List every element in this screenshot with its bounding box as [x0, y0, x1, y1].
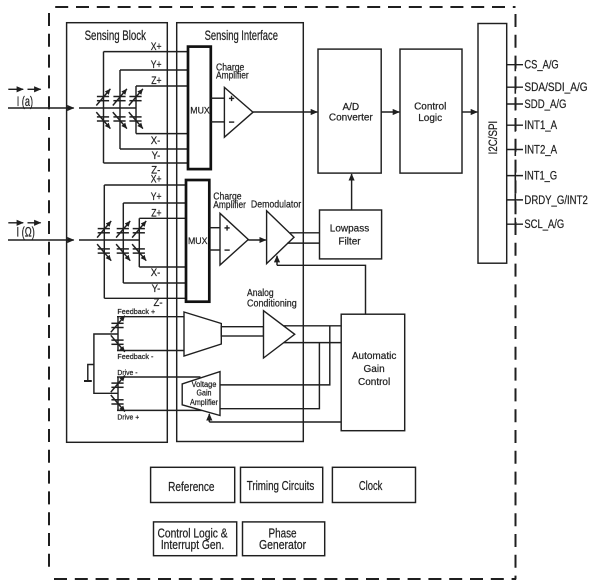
label Voltage Gain Amplifier: [190, 380, 218, 407]
wire: A/D to Control Logic: [381, 111, 399, 113]
svg-text:Conditioning: Conditioning: [247, 298, 297, 310]
svg-text:Feedback +: Feedback +: [117, 307, 155, 316]
mux MUX2 (gyro): [186, 180, 209, 302]
wire: MUX2 to amp - input: [209, 249, 220, 251]
chip boundary (dashed): [49, 7, 516, 579]
variable capacitor gyro top col2: [116, 221, 130, 238]
wire: Drive- rail: [117, 376, 201, 378]
svg-text:Y-: Y-: [152, 283, 161, 295]
wire: Feedback+ rail: [117, 316, 184, 318]
wire: demod output upper to lowpass: [290, 232, 320, 234]
anchor symbol: [84, 365, 94, 382]
svg-text:X-: X-: [151, 268, 161, 280]
Triming Circuits box: [241, 467, 323, 502]
variable capacitor accel bottom col2: [113, 112, 127, 129]
svg-text:−: −: [224, 246, 230, 257]
wire: AC lower output to AGC: [284, 342, 341, 344]
label A/D Converter: [329, 102, 374, 124]
svg-text:Feedback -: Feedback -: [117, 352, 154, 361]
svg-text:Reference: Reference: [168, 480, 214, 495]
wire: gyro Z electrode column: [138, 218, 140, 267]
label Control Logic: [414, 102, 446, 124]
label Charge Amplifier (accel): [216, 62, 249, 81]
wire: Feedback- rail: [117, 350, 184, 352]
wire: accelerometer common input line with arrow: [8, 107, 136, 109]
Lowpass Filter box: [320, 210, 382, 259]
wire: Control Logic to I2C/SPI: [462, 111, 477, 113]
variable capacitor drive bottom: [111, 395, 125, 412]
wire: demod output lower to lowpass: [287, 242, 319, 244]
wire: MUX1 to amp + input: [211, 97, 225, 99]
variable capacitor feedback top: [111, 316, 125, 333]
variable capacitor gyro top col1: [97, 221, 111, 238]
wire: drive electrode column: [117, 377, 119, 410]
svg-text:X-: X-: [151, 135, 161, 147]
wire: branch to VGA upper input: [220, 326, 330, 385]
svg-text:INT1_G: INT1_G: [524, 170, 557, 183]
Phase Generator box: [243, 522, 325, 556]
wire: rail Y+ (gyro): [123, 202, 186, 204]
wire: accel X electrode column: [103, 52, 105, 163]
variable capacitor accel bottom col3: [129, 112, 143, 129]
wire: AGC to VGA bottom (arrow up): [209, 414, 341, 422]
wire: gyro Y electrode column: [122, 203, 124, 283]
wire: rail X- (accel): [136, 133, 188, 135]
wire: MUX1 to amp - input: [211, 121, 225, 123]
wire: rail Z+ (accel): [136, 85, 188, 87]
svg-text:Sensing Block: Sensing Block: [85, 27, 147, 43]
Clock box: [332, 467, 415, 502]
demodulator triangle: [267, 211, 294, 264]
label Charge Amplifier (gyro): [213, 191, 246, 210]
wire: AGC feedback to demodulator (arrow up): [277, 256, 366, 314]
wire: rail Z+ (gyro): [139, 217, 186, 219]
svg-text:A/D: A/D: [342, 102, 359, 113]
pin INT2_A: [507, 143, 558, 157]
svg-text:INT2_A: INT2_A: [524, 144, 557, 157]
svg-text:Amplifier: Amplifier: [190, 398, 218, 407]
wire: gyroscope common input line with arrow: [8, 239, 139, 241]
svg-text:Drive -: Drive -: [117, 370, 138, 377]
svg-text:I (Ω): I (Ω): [17, 226, 35, 240]
svg-text:Z+: Z+: [151, 208, 161, 220]
wire: rail Y+ (accel): [120, 69, 188, 71]
Automatic Gain Control box: [341, 314, 405, 431]
svg-text:MUX: MUX: [188, 236, 207, 246]
svg-text:SDD_A/G: SDD_A/G: [524, 98, 566, 111]
svg-text:Filter: Filter: [338, 236, 361, 247]
wire: Drive+ rail: [117, 409, 202, 411]
wire: charge amp2 output to demodulator: [248, 239, 266, 241]
svg-text:Clock: Clock: [359, 480, 383, 494]
pin SDA/SDI_A/G: [507, 81, 588, 95]
wire: rail Z- (accel): [104, 162, 189, 164]
svg-text:Y-: Y-: [152, 150, 161, 162]
svg-text:Generator: Generator: [259, 539, 306, 552]
svg-text:Triming Circuits: Triming Circuits: [247, 480, 315, 493]
svg-text:Interrupt Gen.: Interrupt Gen.: [161, 539, 224, 552]
svg-text:X+: X+: [151, 41, 162, 53]
I2C/SPI box: [478, 24, 507, 264]
label Automatic Gain Control: [352, 351, 396, 388]
wire: branch to VGA lower input: [220, 343, 319, 409]
svg-text:Lowpass: Lowpass: [330, 223, 369, 234]
svg-text:Converter: Converter: [329, 113, 374, 124]
wire: rail X+ (accel): [104, 51, 189, 53]
wire: accel Y electrode column: [119, 70, 121, 149]
Sensing Interface box: [177, 23, 304, 442]
pin INT1_G: [507, 169, 557, 183]
pin CS_A/G: [507, 58, 559, 72]
wire: MUX2 to amp + input: [209, 227, 220, 229]
label Control Logic & Interrupt Gen.: [157, 528, 227, 553]
voltage gain amplifier (trapezoid, points left): [182, 372, 220, 416]
svg-text:Sensing Interface: Sensing Interface: [205, 27, 279, 43]
svg-text:Gain: Gain: [364, 364, 385, 375]
svg-text:Logic: Logic: [418, 113, 442, 124]
svg-text:Drive +: Drive +: [117, 414, 139, 421]
variable capacitor gyro bottom col2: [116, 244, 130, 261]
Sensing Block box: [67, 23, 168, 443]
svg-text:Amplifier: Amplifier: [213, 198, 246, 210]
svg-text:SDA/SDI_A/G: SDA/SDI_A/G: [524, 82, 587, 95]
op-amp U2 charge amplifier (gyro): [220, 213, 248, 265]
variable capacitor accel top col1: [96, 89, 110, 106]
Control Logic and Interrupt Gen box: [154, 522, 237, 556]
svg-text:DRDY_G/INT2: DRDY_G/INT2: [524, 194, 587, 207]
wire: rail Y- (gyro): [123, 282, 186, 284]
wire: rail X- (gyro): [139, 266, 186, 268]
svg-text:+: +: [229, 94, 235, 105]
wire: rail Z- (gyro): [104, 297, 186, 299]
mux MUX1 (accel): [188, 47, 211, 170]
A/D Converter box: [318, 49, 381, 173]
variable capacitor gyro top col3: [132, 221, 146, 238]
svg-text:CS_A/G: CS_A/G: [524, 59, 558, 72]
svg-text:−: −: [229, 118, 235, 129]
svg-text:Z+: Z+: [151, 75, 161, 87]
wire: feedback/drive common bracket: [94, 334, 118, 393]
pin SDD_A/G: [507, 98, 567, 112]
svg-text:Gain: Gain: [197, 388, 212, 397]
pin DRDY_G/INT2: [507, 193, 588, 207]
wire: rail Y- (accel): [120, 148, 188, 150]
variable capacitor feedback bottom: [111, 335, 125, 352]
wire: accel Z electrode column: [135, 86, 137, 134]
variable capacitor accel top col3: [129, 89, 143, 106]
analog conditioning amplifier triangle: [264, 311, 295, 358]
feedback buffer amplifier (trapezoid): [184, 312, 221, 356]
wire: wide bus feedback buffer to analog conditioning: [221, 327, 263, 336]
wire: charge amp1 output to A/D: [253, 111, 317, 113]
svg-text:+: +: [224, 224, 230, 235]
variable capacitor gyro bottom col3: [132, 244, 146, 261]
svg-text:SCL_A/G: SCL_A/G: [524, 218, 564, 231]
svg-text:X+: X+: [151, 173, 162, 185]
variable capacitor drive top: [111, 376, 125, 393]
svg-text:Automatic: Automatic: [352, 351, 396, 362]
svg-text:Y+: Y+: [151, 191, 162, 203]
input I(Omega) double arrows: [8, 222, 40, 224]
pin SCL_A/G: [507, 218, 564, 232]
input I(a) double arrows: [8, 88, 40, 90]
label Phase Generator: [259, 528, 306, 553]
Reference box: [151, 467, 235, 502]
variable capacitor accel top col2: [113, 89, 127, 106]
wire: gyro X electrode column: [103, 185, 105, 298]
label Lowpass Filter: [330, 223, 369, 247]
svg-text:Y+: Y+: [151, 59, 162, 71]
label Analog Conditioning: [247, 287, 297, 309]
wire: AC upper output to AGC: [284, 325, 342, 327]
svg-text:I2C/SPI: I2C/SPI: [487, 121, 500, 155]
wire: feedback electrode column: [117, 317, 119, 351]
svg-text:Amplifier: Amplifier: [216, 68, 249, 80]
svg-text:INT1_A: INT1_A: [524, 119, 557, 132]
svg-text:Demodulator: Demodulator: [251, 199, 302, 211]
variable capacitor gyro bottom col1: [97, 244, 111, 261]
svg-text:MUX: MUX: [190, 105, 209, 115]
svg-text:Control: Control: [414, 102, 446, 113]
svg-text:Control: Control: [358, 377, 390, 388]
wire: lowpass filter to A/D converter (arrow up): [351, 174, 353, 210]
op-amp U1 charge amplifier (accel): [224, 87, 253, 137]
variable capacitor accel bottom col1: [96, 112, 110, 129]
wire: rail X+ (gyro): [104, 184, 186, 186]
Control Logic box: [400, 49, 462, 173]
pin INT1_A: [507, 119, 558, 133]
